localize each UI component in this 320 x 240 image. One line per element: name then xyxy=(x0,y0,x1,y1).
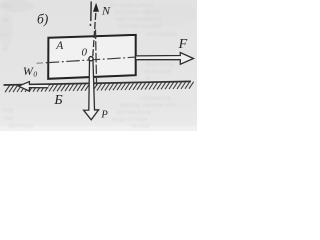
svg-text:пв: пв xyxy=(1,17,9,24)
svg-text:слтншптв: слтншптв xyxy=(140,95,171,102)
block (body A) xyxy=(48,35,136,79)
svg-text:F: F xyxy=(178,37,188,52)
svg-text:шт: шт xyxy=(26,123,35,130)
force N arrow xyxy=(93,12,96,57)
svg-text:нвстлпшквлти: нвстлпшквлти xyxy=(116,16,162,23)
svg-text:нтплшвис: нтплшвис xyxy=(146,31,178,38)
bleed-through text (faint, from page reverse) xyxy=(1,1,178,130)
svg-text:нш: нш xyxy=(2,3,11,10)
svg-text:0: 0 xyxy=(33,69,37,78)
svg-text:тплнвс-шлнвт: тплнвс-шлнвт xyxy=(118,23,163,30)
svg-text:твлнш: твлнш xyxy=(130,123,150,130)
svg-text:нш: нш xyxy=(4,115,13,122)
ground surface line xyxy=(4,81,192,85)
horizontal dash-dot axis through O xyxy=(37,62,49,65)
vertical dash-dot axis (lower part) xyxy=(96,30,97,87)
svg-text:б): б) xyxy=(37,11,49,26)
force W0 arrow (hollow, pointing left) xyxy=(19,82,49,92)
node O circle xyxy=(89,57,93,61)
svg-text:лт: лт xyxy=(1,32,8,39)
force P arrow (hollow, pointing down) xyxy=(84,61,99,120)
svg-text:нслтшие: нслтшие xyxy=(144,68,172,75)
svg-text:N: N xyxy=(101,4,111,18)
force F arrow (hollow) xyxy=(136,53,193,65)
svg-text:A: A xyxy=(55,40,64,52)
svg-text:W: W xyxy=(23,64,34,78)
svg-text:P: P xyxy=(100,110,108,121)
svg-text:нсш-тлпшн: нсш-тлпшн xyxy=(112,116,148,123)
svg-text:Б: Б xyxy=(53,93,62,108)
paper background xyxy=(0,0,197,131)
ground hatching xyxy=(5,82,194,93)
svg-text:свлтн: свлтн xyxy=(8,123,27,130)
svg-text:0: 0 xyxy=(82,47,88,59)
svg-text:вштлнпа: вштлнпа xyxy=(146,61,174,68)
svg-text:шслтне-пбивн: шслтне-пбивн xyxy=(114,8,160,16)
vertical dash-dot axis (top part) xyxy=(89,2,92,27)
svg-text:ит-нлртшйцвт: ит-нлртшйцвт xyxy=(110,1,155,9)
svg-text:нвлтш пшлвн стл: нвлтш пшлвн стл xyxy=(120,102,176,109)
svg-text:тлв: тлв xyxy=(2,107,13,114)
svg-text:нс: нс xyxy=(2,46,10,53)
svg-text:шптвнлсти: шптвнлсти xyxy=(116,109,151,116)
svg-text:á: á xyxy=(146,75,150,82)
paper mottling xyxy=(0,0,196,48)
